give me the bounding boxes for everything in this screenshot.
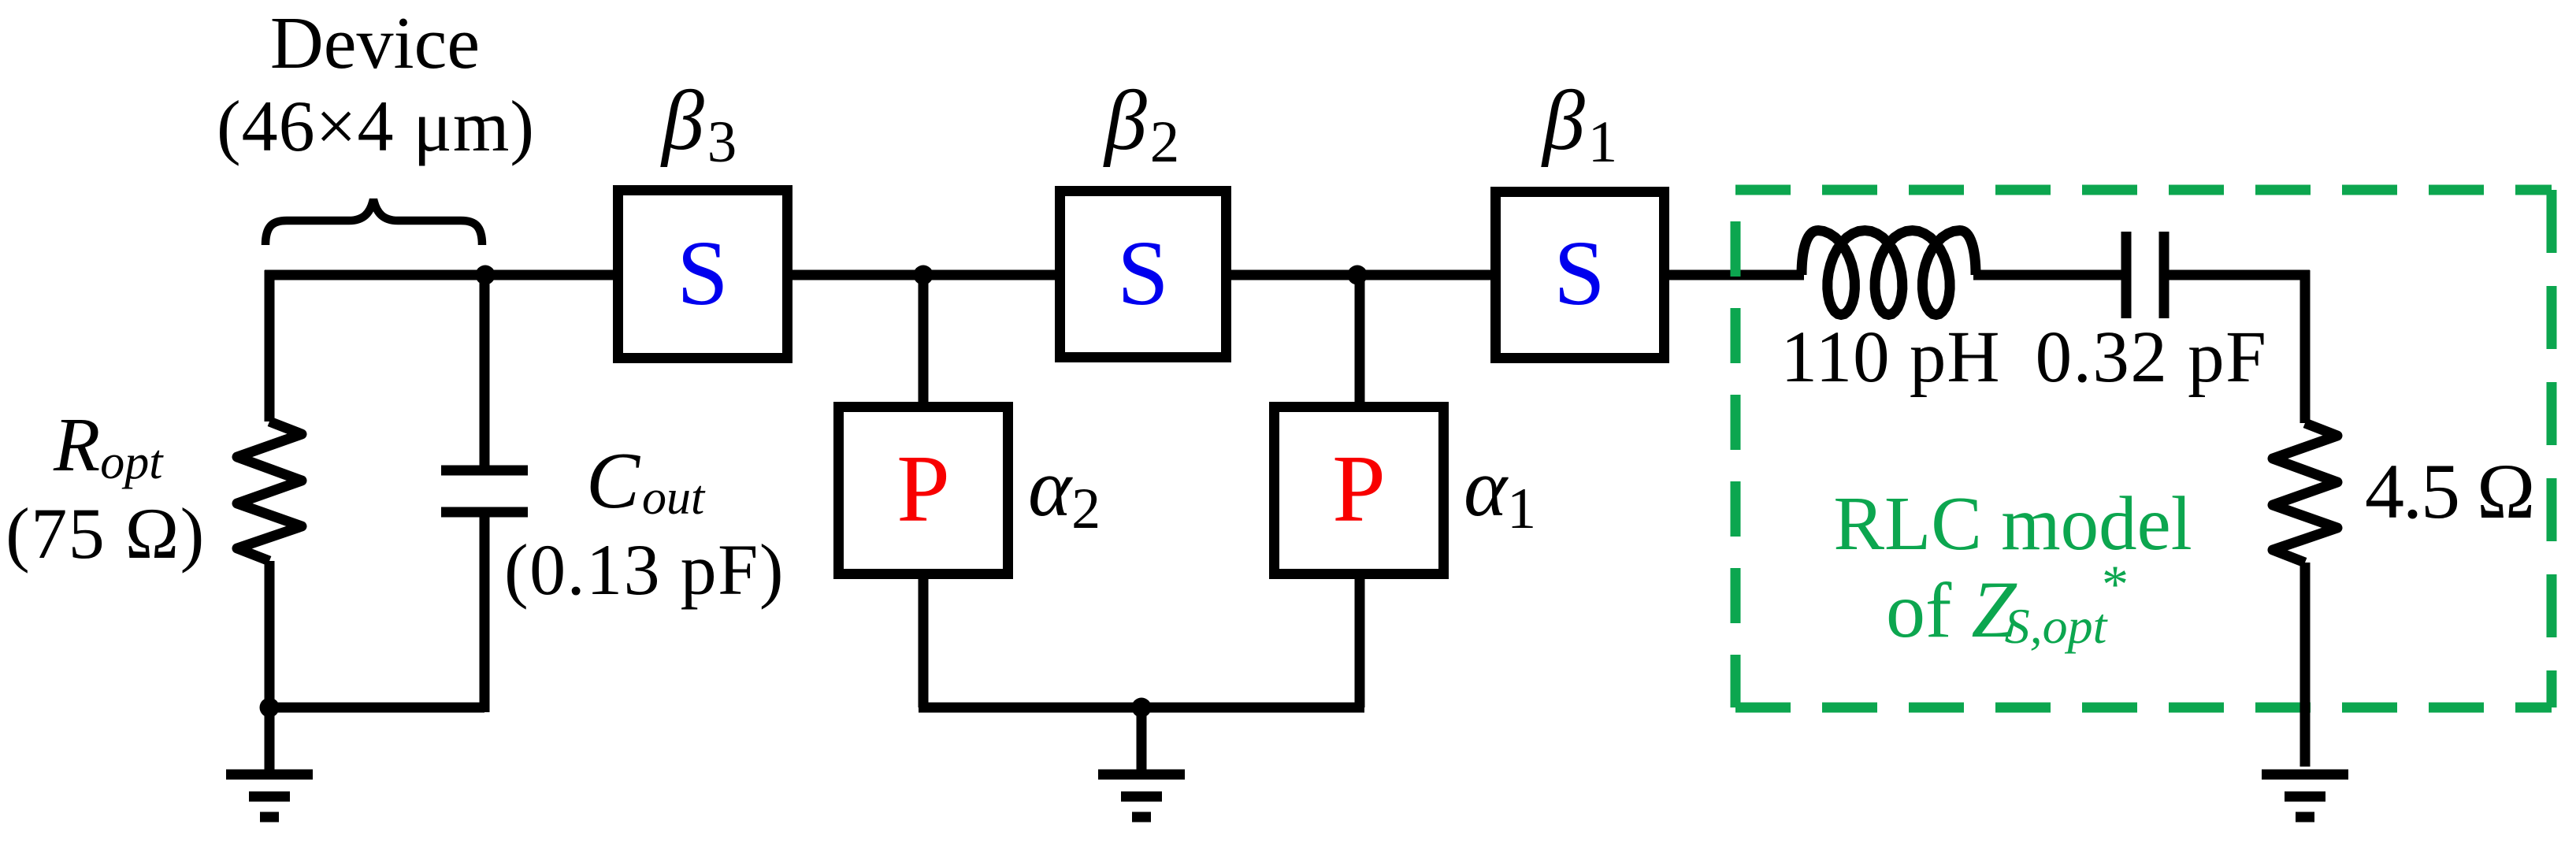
inductor L1 coil 110 pH <box>1802 231 1976 315</box>
box S2 <box>1060 191 1227 358</box>
box P2 <box>1275 407 1444 574</box>
box S1 <box>618 191 788 358</box>
node junction dot after S1 <box>914 266 934 285</box>
svg-text:0.32 pF: 0.32 pF <box>2036 317 2268 398</box>
node junction dot after S2 <box>1348 266 1368 285</box>
svg-text:S: S <box>1117 221 1169 325</box>
svg-text:P: P <box>1332 436 1386 542</box>
svg-text:S: S <box>1553 221 1605 325</box>
svg-text:Device: Device <box>270 2 480 84</box>
svg-text:4.5 Ω: 4.5 Ω <box>2365 447 2533 535</box>
box S3 <box>1496 192 1665 358</box>
ground right <box>2262 774 2348 817</box>
svg-text:(75 Ω): (75 Ω) <box>6 493 206 574</box>
svg-text:*: * <box>2102 554 2129 614</box>
brace device span <box>265 199 482 245</box>
svg-text:(0.13 pF): (0.13 pF) <box>504 529 785 610</box>
green dashed box RLC model <box>1735 190 2552 707</box>
wire left branch vertical to R_opt <box>265 270 275 707</box>
wire main horizontal bus <box>265 270 2310 280</box>
wire capacitor C_out branch <box>480 275 490 712</box>
wire bottom-middle <box>919 703 1364 713</box>
resistor R1 R_opt zigzag <box>237 421 302 561</box>
resistor R2 4.5 ohm zigzag <box>2273 423 2337 563</box>
box P1 <box>839 407 1008 574</box>
ground left <box>226 707 313 817</box>
wire right branch vertical <box>2300 270 2311 767</box>
capacitor C2 series plates 0.32 pF <box>2126 232 2164 318</box>
wire bottom-left <box>265 703 484 713</box>
svg-text:P: P <box>896 436 950 542</box>
node junction dot bottom-left <box>260 698 280 718</box>
svg-text:(46×4 μm): (46×4 μm) <box>217 86 535 166</box>
node junction dot top-left <box>476 266 496 285</box>
ground middle <box>1098 707 1185 817</box>
wire P2 branch verticals <box>1355 275 1365 707</box>
wire P1 branch verticals <box>919 275 929 707</box>
node junction dot bottom-middle <box>1132 698 1152 718</box>
svg-text:110 pH: 110 pH <box>1781 317 2001 398</box>
svg-text:RLC model: RLC model <box>1833 481 2192 566</box>
capacitor C1 C_out plates <box>441 470 528 512</box>
svg-text:S: S <box>677 221 729 325</box>
